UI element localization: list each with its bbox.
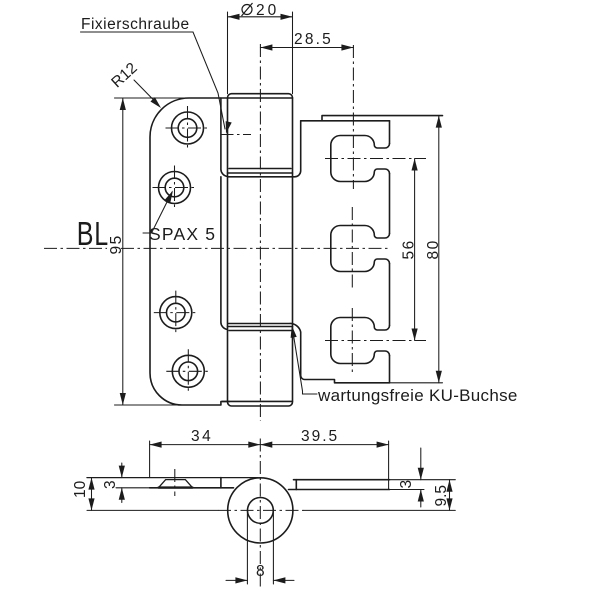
dim 28.5 line	[260, 47, 353, 49]
leader arrow KU-Buchse	[289, 325, 297, 338]
dim 20 line	[228, 16, 293, 18]
T-slot cutout 2	[331, 226, 390, 272]
BL reference line	[44, 247, 389, 249]
mounting reference line right	[304, 509, 455, 511]
Fixierschraube leader	[81, 32, 226, 129]
SPAX leader	[143, 192, 172, 233]
right plate top extension	[390, 479, 456, 481]
dim 39.5 arrows	[260, 442, 272, 448]
dim 34 / 39.5 line	[150, 444, 389, 446]
hole H2 crosshair	[153, 166, 197, 210]
countersink symbol	[159, 480, 193, 488]
svg-text:R12: R12	[108, 60, 141, 92]
centerlines (dash-dot)	[44, 44, 426, 587]
svg-text:10: 10	[72, 480, 89, 498]
left plate leaf-edge tick	[220, 478, 222, 488]
hole H3 crosshair	[154, 291, 198, 335]
dim 34 left extension / plate end	[149, 441, 151, 478]
dim 80 arrows	[436, 116, 442, 128]
bottom view solid geometry	[87, 478, 455, 543]
leaf plate outline (main view)	[150, 98, 230, 405]
comb bottom extension line to 80-dim	[390, 382, 443, 384]
leader arrow Fixierschraube	[223, 121, 232, 134]
bottom view knuckle horizontal centerline	[218, 509, 304, 511]
right plate tick	[295, 480, 297, 490]
dim 10 line	[91, 478, 93, 511]
leaf right edge middle segment	[221, 177, 228, 330]
svg-text:34: 34	[191, 428, 213, 445]
slot3 axis vertical	[351, 308, 353, 374]
dim 3 right arrow stems	[420, 448, 422, 507]
dim 8 extensions / pin lines	[247, 511, 273, 584]
dim 95 arrows	[120, 98, 126, 110]
barrel bottom cap	[222, 401, 293, 406]
svg-text:8: 8	[256, 563, 265, 580]
screw hole H3 inner	[167, 303, 186, 322]
slot1 axis vertical / 28.5 extension	[352, 45, 354, 189]
barrel axis centerline	[259, 44, 261, 421]
label diameter 20	[242, 3, 253, 16]
svg-text:wartungsfreie KU-Buchse: wartungsfreie KU-Buchse	[317, 386, 518, 405]
dim 9.5 arrows	[446, 480, 452, 492]
screw hole H2 outer	[159, 172, 191, 204]
dim 28.5 arrows	[260, 44, 272, 50]
dim 20 arrows	[228, 14, 240, 20]
dim 9.5 line	[449, 480, 451, 511]
svg-text:9.5: 9.5	[433, 485, 450, 507]
screw hole H1 outer	[172, 112, 204, 144]
svg-text:BL: BL	[77, 216, 109, 253]
Fixierschraube axis mark	[221, 134, 252, 136]
dim 8 arrows	[235, 577, 247, 583]
countersink axis	[174, 469, 176, 496]
svg-text:56: 56	[401, 239, 418, 259]
arrowheads	[88, 14, 452, 584]
screw hole H2 inner	[165, 178, 184, 197]
right plate top edge	[294, 479, 390, 481]
svg-text:3: 3	[102, 480, 119, 489]
dim 3 right arrows	[418, 468, 424, 480]
leaf right edge upper segment	[221, 98, 228, 177]
right plate bottom edge	[289, 489, 390, 491]
dim 56 line	[414, 159, 416, 341]
slot1 horizontal centerline	[325, 158, 426, 160]
svg-text:39.5: 39.5	[301, 428, 339, 445]
knuckle pin inner circle	[248, 498, 274, 524]
screw hole H1 inner	[178, 119, 197, 138]
hole H1 crosshair	[166, 106, 210, 150]
dim 3 left arrows	[119, 466, 125, 478]
barrel knuckle outline	[228, 98, 293, 401]
leader lines	[81, 32, 318, 394]
dim 3 left arrow stems	[121, 463, 123, 503]
dim 34 arrows	[150, 442, 162, 448]
dim 39.5 right extension	[388, 441, 390, 490]
countersink bottom emphasis	[159, 486, 193, 488]
dim 56 arrows	[412, 159, 418, 171]
left plate top edge	[87, 477, 258, 479]
screw hole H4 inner	[179, 362, 198, 381]
bottom view vertical centerline	[259, 439, 261, 588]
dim 95 extension lines	[115, 98, 190, 405]
leader arrow SPAX	[165, 189, 176, 203]
KU bushing upper edge	[229, 176, 295, 178]
frame leaf lower wrap	[229, 323, 390, 382]
comb right edge segments	[389, 121, 391, 383]
hole H4 crosshair	[166, 349, 210, 393]
knuckle joint 1 rims	[228, 169, 293, 174]
R12 leader	[134, 80, 159, 106]
svg-text:3: 3	[398, 480, 415, 489]
svg-text:28.5: 28.5	[294, 31, 333, 48]
knuckle joint 2 rims	[228, 327, 293, 331]
screw hole H3 outer	[160, 297, 192, 329]
dim 10 arrows	[88, 478, 94, 490]
knuckle outer circle	[228, 478, 293, 543]
svg-text:Fixierschraube: Fixierschraube	[81, 16, 190, 33]
dim 8 line	[226, 579, 294, 581]
KU-Buchse leader	[293, 329, 318, 394]
frame leaf (comb) upper wrap	[295, 121, 301, 177]
slot2 axis vertical	[351, 207, 353, 290]
svg-text:20: 20	[256, 2, 279, 19]
T-slot cutout 1	[331, 136, 390, 182]
svg-text:80: 80	[425, 239, 442, 259]
slot3 horizontal centerline	[325, 340, 426, 342]
screw hole H4 outer	[172, 355, 204, 387]
svg-text:SPAX 5: SPAX 5	[149, 224, 216, 244]
T-slot cutout 3	[331, 318, 390, 364]
barrel top cap	[228, 94, 293, 98]
right plate bottom extension	[390, 489, 425, 491]
dim 80 line	[438, 116, 440, 383]
mounting reference line left	[87, 509, 218, 511]
leader arrow R12	[150, 97, 163, 110]
dim 95 line	[122, 98, 124, 405]
left plate bottom edge	[150, 487, 234, 489]
svg-text:95: 95	[108, 234, 125, 254]
comb top edge	[301, 116, 443, 121]
dim 3 left lower extension	[116, 487, 150, 489]
dim 20 extension lines	[228, 12, 293, 94]
